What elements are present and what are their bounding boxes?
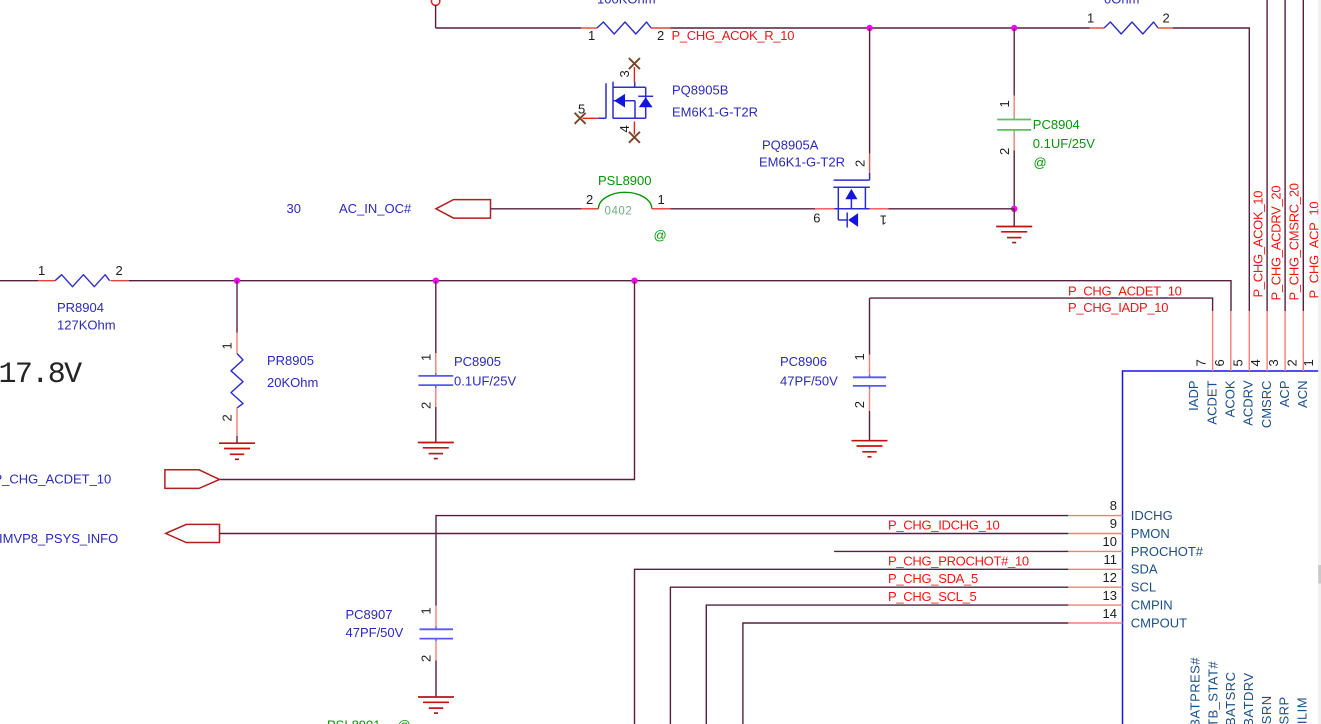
svg-text:PSL8900: PSL8900 [598, 173, 652, 188]
svg-text:IMVP8_PSYS_INFO: IMVP8_PSYS_INFO [0, 531, 118, 546]
svg-text:12: 12 [1103, 570, 1117, 585]
svg-text:1: 1 [419, 354, 434, 361]
svg-text:14: 14 [1103, 606, 1117, 621]
resistor 0Ohm pin 2 [1158, 27, 1173, 29]
wire pin 12 (SCL) [670, 587, 1068, 724]
svg-text:PC8906: PC8906 [780, 354, 827, 369]
svg-text:BATSRC: BATSRC [1223, 672, 1238, 724]
off-page connector circle (top) [431, 0, 439, 5]
svg-text:PR8904: PR8904 [57, 300, 104, 315]
pin 1 [1013, 96, 1015, 151]
IC pin 13 [1068, 604, 1122, 606]
wire connector to inductor [491, 208, 582, 210]
svg-text:0.1UF/25V: 0.1UF/25V [454, 374, 516, 389]
capacitor PC8906 [780, 298, 888, 457]
wire pin 13 (CMPIN) [706, 605, 1068, 724]
IC pin 14 [1068, 622, 1122, 624]
svg-text:30: 30 [287, 201, 301, 216]
svg-text:IADP: IADP [1186, 381, 1201, 411]
svg-text:1: 1 [1301, 359, 1316, 366]
wire junction to ground [1013, 209, 1015, 227]
pin 2 [236, 408, 238, 436]
wire top bus left segment [436, 27, 581, 29]
svg-text:SRN: SRN [1259, 695, 1274, 724]
svg-text:SCL: SCL [1131, 580, 1156, 595]
svg-text:P_CHG_CMSRC_20: P_CHG_CMSRC_20 [1287, 183, 1302, 300]
plate 2 [420, 638, 454, 640]
IC pin 5 [1248, 311, 1250, 371]
svg-text:17.8V: 17.8V [0, 358, 82, 392]
IC pin 7 [1212, 311, 1214, 371]
svg-text:@: @ [654, 228, 667, 243]
wire to ground [435, 661, 437, 698]
junction [1011, 206, 1017, 212]
svg-text:47PF/50V: 47PF/50V [346, 625, 404, 640]
svg-text:PR8905: PR8905 [267, 353, 314, 368]
capacitor PC8905 [418, 281, 517, 459]
wire PQ8905A to ground junction [888, 208, 1014, 210]
svg-text:ACDET: ACDET [1204, 380, 1219, 424]
pin 2 (gate) [869, 154, 871, 174]
svg-text:P_CHG_SCL_5: P_CHG_SCL_5 [888, 589, 977, 604]
no-connect X pin 5 [575, 113, 586, 124]
svg-text:ACOK: ACOK [1223, 380, 1238, 417]
ground [996, 227, 1032, 243]
svg-text:1: 1 [1087, 11, 1094, 26]
MOSFET B body diode bar [638, 95, 653, 97]
svg-text:9: 9 [813, 211, 820, 226]
resistor P_CHG_ACOK_R pin 2 [651, 27, 671, 29]
svg-text:PC8905: PC8905 [454, 354, 501, 369]
svg-text:ILIM: ILIM [1295, 697, 1310, 724]
svg-text:2: 2 [1163, 11, 1170, 26]
svg-text:100KOhm: 100KOhm [597, 0, 656, 7]
svg-text:2: 2 [220, 414, 235, 421]
svg-text:P_CHG_ACDRV_20: P_CHG_ACDRV_20 [1269, 186, 1284, 301]
svg-text:CMPOUT: CMPOUT [1131, 615, 1187, 630]
svg-text:9: 9 [1110, 516, 1117, 531]
transistor PQ8905B [575, 58, 758, 143]
capacitor PC8904 [996, 28, 1095, 243]
svg-text:PROCHOT#: PROCHOT# [1131, 544, 1204, 559]
resistor PR8905 [219, 281, 318, 460]
pin 9 [815, 208, 834, 210]
wire inductor to PQ8905A [670, 208, 815, 210]
svg-text:1: 1 [220, 342, 235, 349]
svg-text:PC8904: PC8904 [1033, 117, 1080, 132]
junction [234, 278, 240, 284]
pin 1 [435, 606, 437, 661]
svg-text:10: 10 [1103, 534, 1117, 549]
svg-text:5: 5 [1230, 359, 1245, 366]
svg-text:PC8907: PC8907 [346, 607, 393, 622]
svg-text:ACN: ACN [1295, 381, 1310, 408]
pin 4 [633, 122, 635, 135]
IC pin 9 [1068, 533, 1122, 535]
junction [1011, 25, 1017, 31]
svg-text:1: 1 [419, 607, 434, 614]
pin 1 [869, 355, 871, 411]
wire top bus right segment [671, 27, 1090, 29]
wire to pin 4 [1266, 0, 1268, 311]
svg-text:ACDRV: ACDRV [1241, 380, 1256, 426]
svg-text:TB_STAT#: TB_STAT# [1206, 661, 1221, 724]
MOSFET B symbol [598, 82, 645, 119]
MOSFET A body diode bar [846, 213, 848, 228]
wire from circle down [435, 5, 437, 28]
svg-text:127KOhm: 127KOhm [57, 318, 116, 333]
MOSFET A arrow [845, 189, 857, 199]
svg-text:2: 2 [116, 263, 123, 278]
svg-text:2: 2 [1284, 359, 1299, 366]
svg-text:P_CHG_ACDET_10: P_CHG_ACDET_10 [0, 472, 111, 487]
IMVP8_PSYS_INFO input wire [0, 524, 1068, 545]
transistor PQ8905A [759, 28, 888, 228]
P_CHG_IADP_10 wire [870, 283, 1213, 315]
pin 3 [633, 67, 635, 82]
wire bus to cap [435, 281, 437, 354]
svg-text:1: 1 [997, 100, 1012, 107]
svg-text:47PF/50V: 47PF/50V [780, 374, 838, 389]
IC U8900 outline [1123, 371, 1321, 724]
capacitor PC8907 [346, 606, 455, 714]
svg-text:P_CHG_PROCHOT#_10: P_CHG_PROCHOT#_10 [888, 553, 1029, 568]
resistor PR8905 body [231, 354, 243, 408]
plate 2 [997, 129, 1031, 131]
resistor PR8904 pin 1 [38, 280, 55, 282]
svg-text:1: 1 [38, 263, 45, 278]
svg-text:CMSRC: CMSRC [1259, 381, 1274, 429]
IC pin 1 [1319, 311, 1321, 371]
MOSFET A symbol [833, 173, 869, 220]
svg-text:3: 3 [617, 70, 632, 77]
wire 0Ohm to ACOK pin [1173, 28, 1249, 311]
port connector P_CHG_ACDET_10 [165, 470, 220, 489]
resistor PR8904 body [55, 275, 110, 287]
svg-text:6: 6 [1212, 359, 1227, 366]
svg-text:20KOhm: 20KOhm [267, 375, 318, 390]
svg-text:@: @ [1034, 155, 1047, 170]
svg-text:EM6K1-G-T2R: EM6K1-G-T2R [672, 105, 758, 120]
svg-text:2: 2 [997, 148, 1012, 155]
resistor 0Ohm body [1104, 22, 1158, 34]
svg-text:13: 13 [1103, 588, 1117, 603]
wire bus down and left to port [220, 281, 635, 480]
resistor PR8904 pin 2 [111, 280, 129, 282]
IC pin 8 [1068, 515, 1122, 517]
svg-text:2: 2 [853, 160, 868, 167]
main bus [0, 263, 1231, 333]
plate 1 [420, 628, 454, 630]
inductor PSL8900 pin 1 [652, 208, 671, 210]
svg-text:IDCHG: IDCHG [1131, 508, 1173, 523]
wire corner to IC pin 7 [870, 298, 1213, 311]
junction [631, 278, 637, 284]
inductor PSL8900 arc [598, 192, 651, 208]
svg-text:0Ohm: 0Ohm [1104, 0, 1139, 7]
svg-text:2: 2 [419, 402, 434, 409]
svg-text:PMON: PMON [1131, 526, 1170, 541]
wire pin 10 (PROCHOT) [834, 550, 1068, 552]
svg-text:P_CHG_SDA_5: P_CHG_SDA_5 [888, 571, 978, 586]
svg-text:1: 1 [880, 213, 887, 228]
junction [866, 25, 872, 31]
ground [219, 443, 255, 459]
svg-text:11: 11 [1104, 552, 1118, 567]
IC pin 12 [1068, 586, 1122, 588]
resistor 0Ohm pin 1 [1090, 27, 1105, 29]
port connector IMVP8_PSYS_INFO [166, 524, 220, 542]
wire bus to cap [1013, 28, 1015, 96]
svg-text:AC_IN_OC#: AC_IN_OC# [339, 201, 412, 216]
svg-text:2: 2 [852, 401, 867, 408]
svg-text:2: 2 [419, 655, 434, 662]
plate 1 [418, 375, 453, 377]
AC_IN_OC# line [287, 173, 1015, 242]
wire pin 8 to PC8907 [436, 516, 1068, 606]
MOSFET B arrow [614, 94, 625, 108]
svg-text:P_CHG_ACOK_R_10: P_CHG_ACOK_R_10 [672, 28, 795, 43]
wire to ground [236, 436, 238, 443]
svg-text:SDA: SDA [1131, 562, 1158, 577]
IC pin 11 [1068, 568, 1122, 570]
wire to ground [435, 407, 437, 443]
scrollbar thumb [1318, 565, 1321, 584]
inductor PSL8900 pin 2 [581, 208, 598, 210]
wire to pin 3 [1284, 0, 1286, 311]
svg-text:1: 1 [852, 353, 867, 360]
svg-text:2: 2 [586, 192, 593, 207]
IC pin 3 [1284, 311, 1286, 371]
svg-text:5: 5 [578, 102, 585, 117]
IC pin 2 [1302, 311, 1304, 371]
wire to pin 2 [1302, 0, 1304, 311]
wire cap to junction [1013, 151, 1015, 209]
svg-text:3: 3 [1266, 359, 1281, 366]
pin 2 [435, 388, 437, 407]
wire connector to pin 9 [220, 533, 1069, 535]
pin 5 [583, 117, 599, 119]
svg-text:1: 1 [588, 28, 595, 43]
wire to pin 1 [1319, 0, 1321, 311]
ground [852, 441, 888, 457]
resistor P_CHG_ACOK_R pin 1 [581, 27, 597, 29]
port connector AC_IN_OC# [436, 200, 491, 219]
pin 1 [870, 208, 889, 210]
svg-text:0.1UF/25V: 0.1UF/25V [1033, 136, 1095, 151]
ground [418, 443, 454, 459]
gate wire from top bus [869, 28, 871, 154]
svg-text:1: 1 [658, 192, 665, 207]
plate 2 [853, 385, 886, 387]
svg-text:PQ8905B: PQ8905B [672, 83, 728, 98]
wire to ground [869, 411, 871, 441]
MOSFET A body diode [848, 213, 858, 227]
no-connect X pin 4 [629, 132, 640, 143]
svg-text:PSL8901: PSL8901 [327, 718, 381, 724]
junction [433, 278, 439, 284]
svg-text:ACP: ACP [1277, 381, 1292, 408]
svg-text:8: 8 [1110, 498, 1117, 513]
svg-text:SRP: SRP [1277, 696, 1292, 724]
plate 1 [997, 119, 1031, 121]
svg-text:P_CHG_ACDET_10: P_CHG_ACDET_10 [1068, 283, 1182, 298]
svg-text:BATDRV: BATDRV [1241, 672, 1256, 724]
wire bus main [129, 281, 1231, 311]
wire corner to cap [869, 298, 871, 354]
no-connect X pin 3 [629, 58, 640, 69]
svg-text:@: @ [398, 718, 411, 724]
resistor P_CHG_ACOK_R body [597, 22, 651, 34]
svg-text:4: 4 [1248, 359, 1263, 366]
plate 2 [418, 384, 453, 386]
svg-text:CMPIN: CMPIN [1131, 598, 1173, 613]
svg-text:0402: 0402 [605, 206, 633, 218]
wire left edge [0, 280, 38, 282]
svg-text:7: 7 [1194, 359, 1209, 366]
svg-text:P_CHG_IADP_10: P_CHG_IADP_10 [1068, 300, 1168, 315]
svg-text:BATPRES#: BATPRES# [1188, 657, 1203, 724]
IC pin 4 [1266, 311, 1268, 371]
scrollbar track [1318, 0, 1321, 724]
wire pin 14 (CMPOUT) [743, 623, 1068, 724]
MOSFET B body diode [639, 97, 653, 107]
plate 1 [853, 376, 886, 378]
svg-text:PQ8905A: PQ8905A [762, 138, 819, 153]
svg-text:P_CHG_ACOK_10: P_CHG_ACOK_10 [1251, 191, 1266, 298]
IC pin 10 [1068, 550, 1122, 552]
P_CHG_ACDET_10 output wire [0, 281, 635, 489]
wire bus to resistor [236, 281, 238, 333]
svg-text:2: 2 [657, 28, 664, 43]
wire pin 11 (SDA) [635, 569, 1069, 724]
svg-text:P_CHG_IDCHG_10: P_CHG_IDCHG_10 [888, 517, 999, 532]
ground [418, 697, 454, 713]
pin 1 [236, 333, 238, 354]
svg-text:EM6K1-G-T2R: EM6K1-G-T2R [759, 155, 845, 170]
IC pin 6 [1230, 311, 1232, 371]
pin 1 [435, 353, 437, 373]
